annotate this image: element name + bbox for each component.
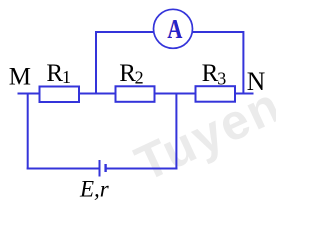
svg-text:R: R bbox=[202, 60, 219, 87]
svg-text:E,r: E,r bbox=[79, 177, 110, 202]
svg-text:N: N bbox=[247, 67, 266, 96]
label R2 bbox=[119, 60, 143, 88]
label R1 bbox=[46, 60, 71, 87]
wire right branch vertical to junction R2-R3 bbox=[175, 94, 177, 170]
resistor R2 bbox=[116, 86, 155, 102]
battery E,r plates bbox=[100, 160, 106, 177]
wire main M-N horizontal bbox=[18, 93, 254, 95]
ammeter A bbox=[154, 9, 193, 48]
wire bottom battery to right vertical bbox=[106, 168, 178, 170]
label R3 bbox=[202, 60, 227, 88]
wire ammeter left branch bbox=[96, 32, 154, 94]
svg-text:2: 2 bbox=[135, 67, 144, 87]
resistor R3 bbox=[196, 86, 236, 102]
wire ammeter right branch bbox=[193, 32, 243, 94]
svg-text:R: R bbox=[46, 60, 63, 87]
resistor R1 bbox=[40, 87, 80, 103]
svg-text:M: M bbox=[9, 64, 31, 91]
wire M branch vertical bbox=[27, 93, 29, 170]
svg-text:A: A bbox=[168, 13, 183, 44]
wire bottom left to battery bbox=[27, 168, 100, 170]
svg-text:3: 3 bbox=[217, 68, 226, 88]
svg-text:1: 1 bbox=[62, 67, 71, 87]
